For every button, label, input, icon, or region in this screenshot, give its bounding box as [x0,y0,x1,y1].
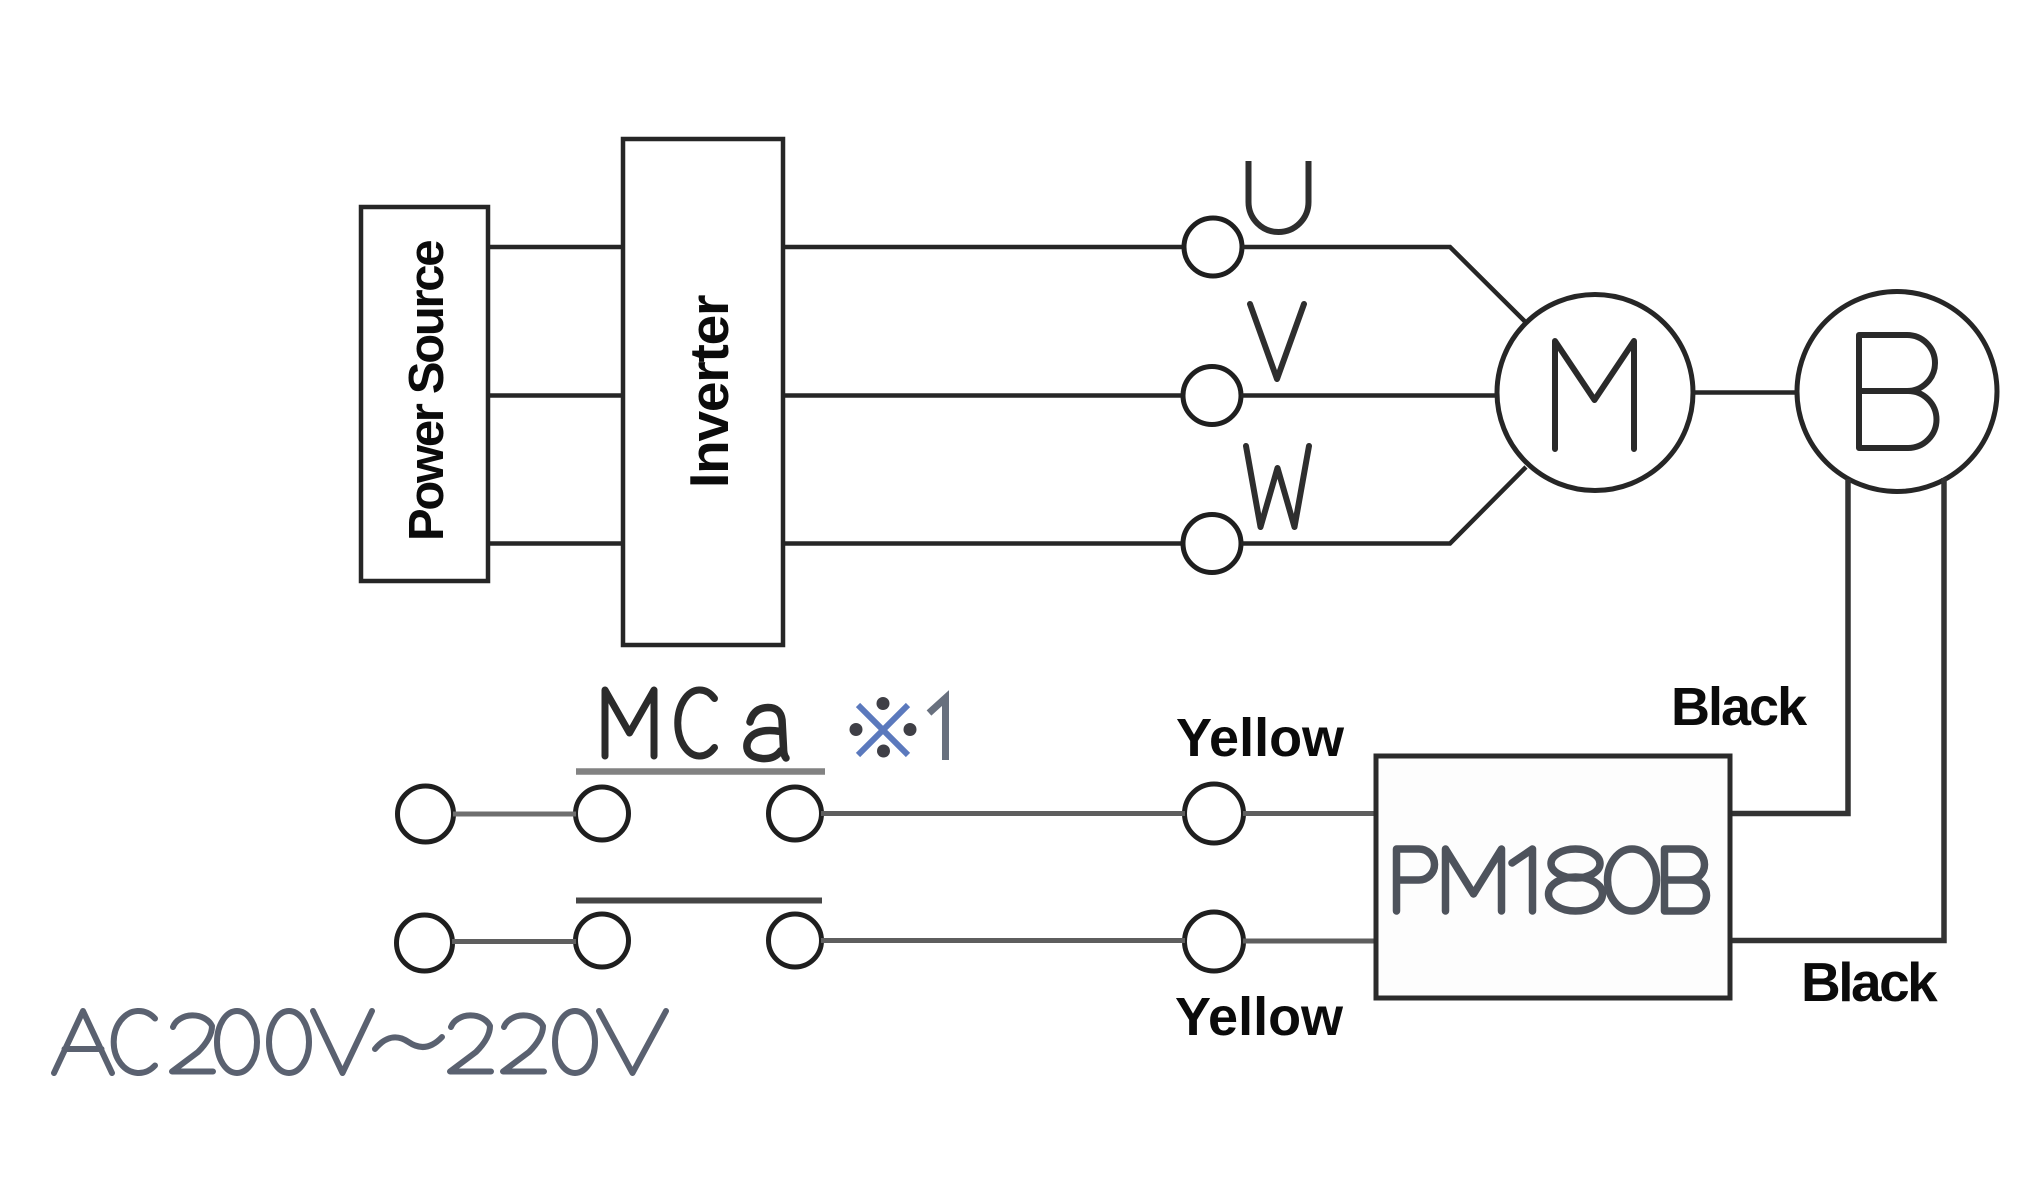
PM180B box [1376,756,1730,998]
label U [1249,161,1309,232]
svg-text:Black: Black [1801,951,1938,1013]
svg-text:Yellow: Yellow [1175,987,1344,1047]
wire row1 a [453,812,576,817]
svg-text:Yellow: Yellow [1176,708,1345,768]
label AC200V~220V [54,1011,666,1073]
row1 terminal 3 [769,787,822,840]
row1 yellow terminal [1185,784,1244,843]
wire L3 power source to inverter [488,541,623,546]
wire V inverter to terminal [785,393,1183,398]
wire V terminal to motor [1241,393,1498,398]
MC contact bar row1 [576,768,825,775]
wire U terminal to motor [1242,247,1526,323]
label reference mark 1 [858,705,908,755]
svg-text:Power Source: Power Source [400,241,454,541]
terminal V [1183,367,1241,425]
row1 terminal 2 [576,787,629,840]
wire row1 c [1243,811,1376,816]
wire brake black upper [1732,479,1848,814]
brake circle B [1797,292,1997,492]
label MC a [605,690,786,759]
wire row2 c [1243,939,1376,944]
svg-text:Black: Black [1671,677,1808,737]
wire W terminal to motor [1241,467,1526,544]
letter B [1859,335,1937,448]
row2 terminal 2 [576,914,629,967]
inverter box [623,139,783,645]
letter M [1555,341,1634,449]
power source box [361,207,488,581]
row2 terminal 1 [397,915,453,971]
wire row1 b [821,811,1185,816]
wire motor to brake [1693,390,1797,395]
label V [1250,304,1304,379]
wire U inverter to terminal [785,245,1184,250]
row2 terminal 3 [769,914,822,967]
wire brake black lower [1732,478,1944,941]
svg-text:Inverter: Inverter [678,295,740,488]
terminal U [1184,218,1242,276]
wire L2 power source to inverter [488,393,623,398]
MC contact bar row2 [576,898,822,904]
row2 yellow terminal [1185,912,1244,971]
wire L1 power source to inverter [488,245,623,250]
wire row2 b [821,938,1185,943]
motor circle M [1497,295,1693,491]
row1 terminal 1 [398,786,454,842]
wire W inverter to terminal [785,541,1183,546]
terminal W [1183,515,1241,573]
label W [1246,446,1309,527]
wire row2 a [452,939,576,944]
PM180B label [1397,849,1707,911]
